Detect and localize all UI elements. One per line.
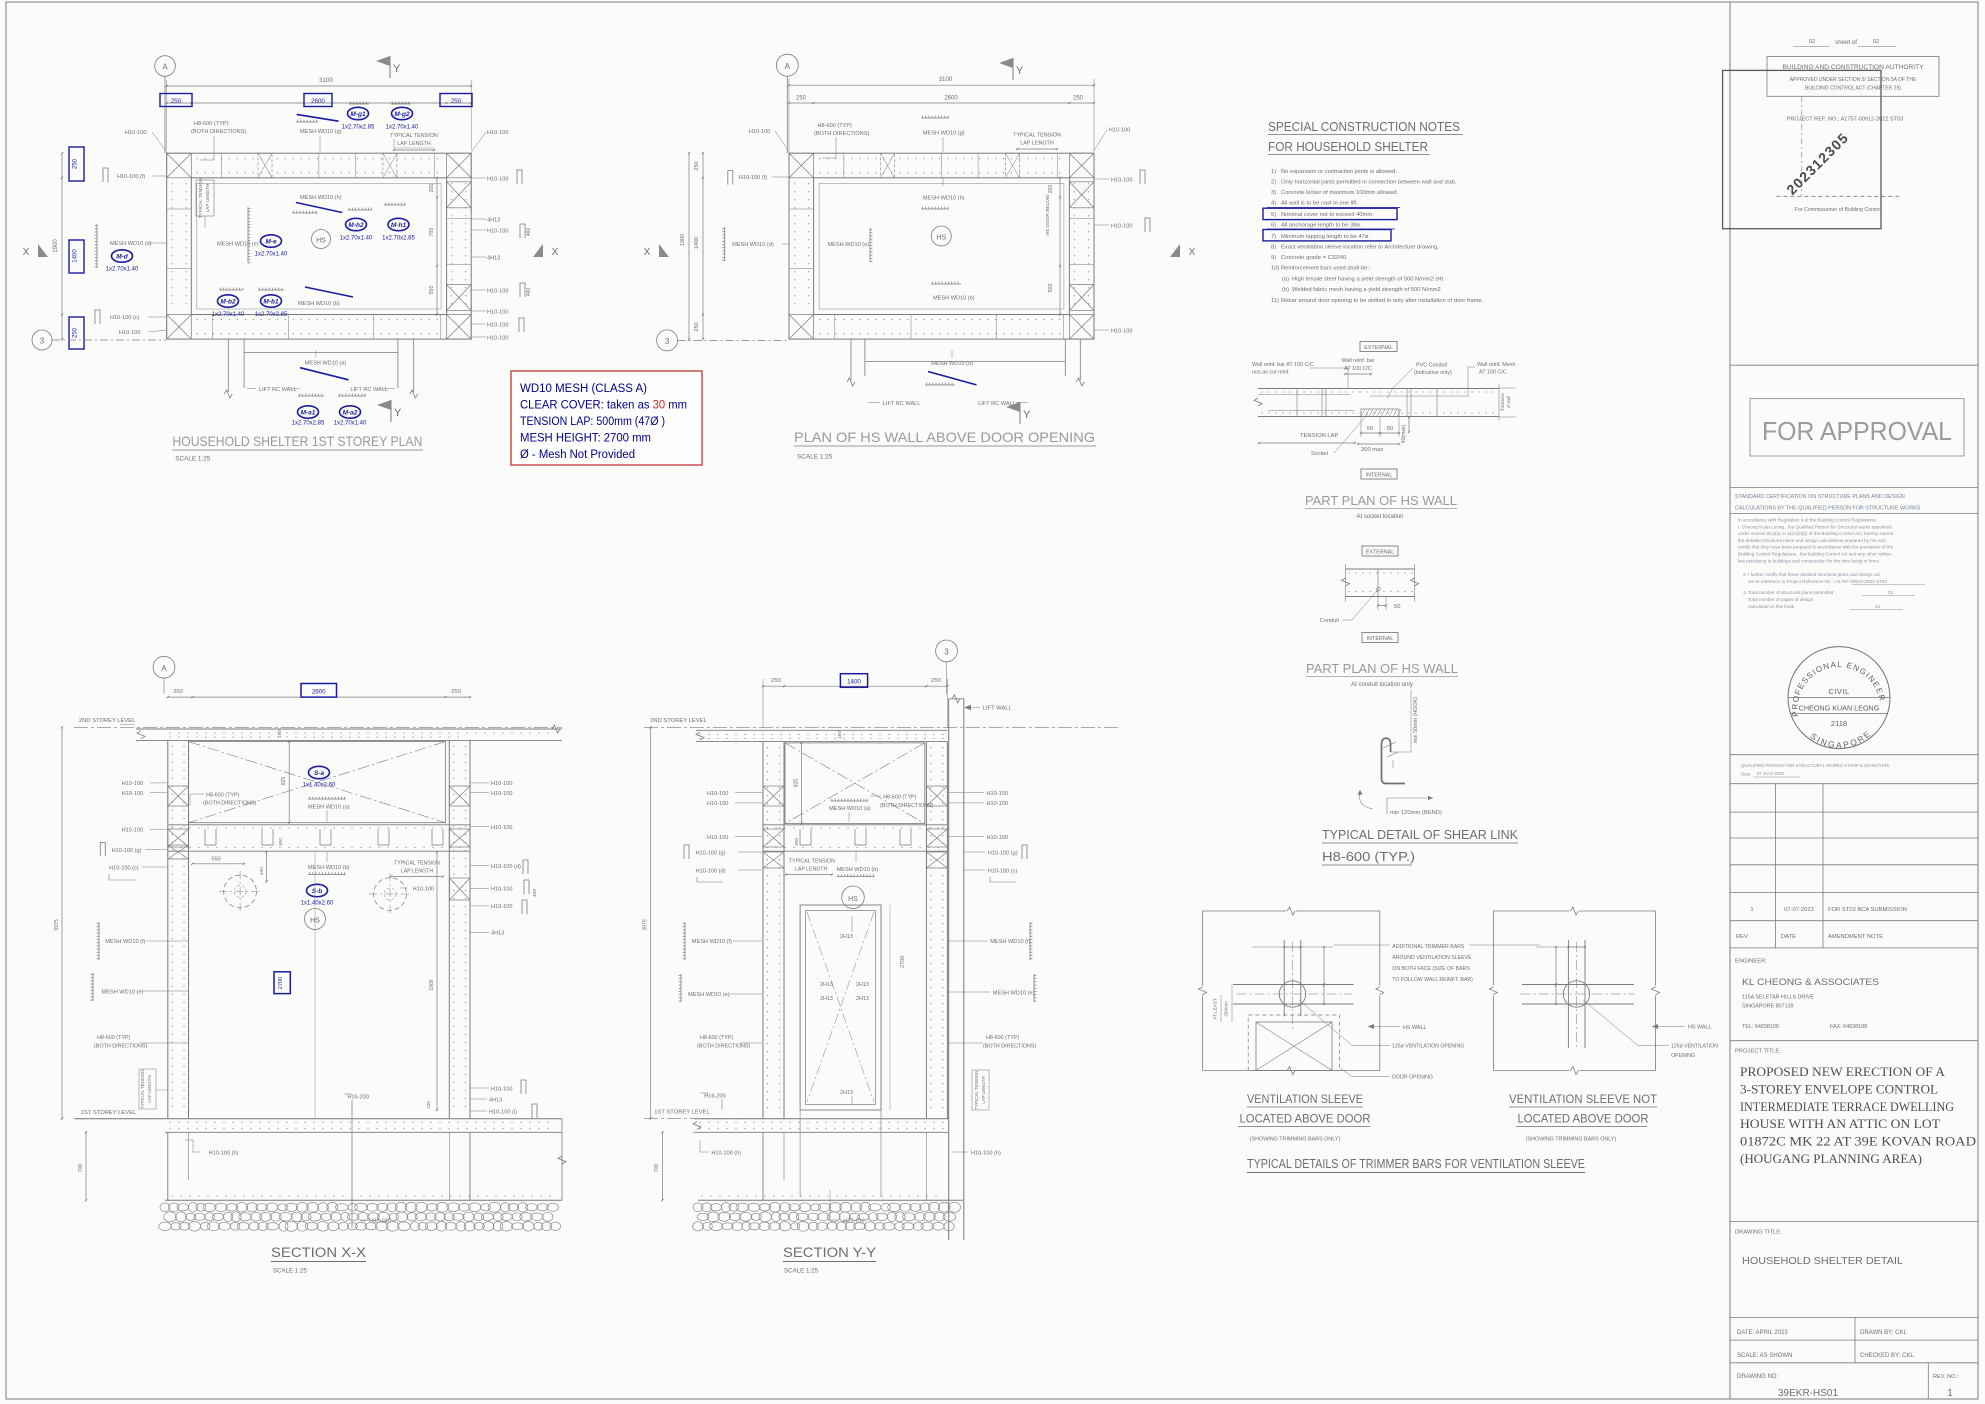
label H10-100 (f) plan2 bbox=[728, 171, 733, 185]
svg-text:250: 250 bbox=[1073, 96, 1084, 102]
trimmer dim right bbox=[1568, 946, 1585, 948]
2nd storey slab (Y-Y) bbox=[696, 729, 947, 731]
wall rebar dots right bbox=[465, 183, 466, 184]
svg-text:TO FOLLOW WALL REINFT. BAR): TO FOLLOW WALL REINFT. BAR) bbox=[1392, 977, 1473, 983]
svg-text:2700: 2700 bbox=[900, 956, 906, 968]
svg-text:MESH WD10 (e): MESH WD10 (e) bbox=[688, 992, 730, 998]
corner brace bottom-left bbox=[789, 315, 814, 340]
svg-text:AT 100 C/C: AT 100 C/C bbox=[1479, 370, 1507, 376]
left wall braces (Y-Y) bbox=[763, 786, 784, 806]
floor slab (Y-Y) bbox=[694, 1118, 949, 1120]
svg-text:460: 460 bbox=[526, 288, 532, 297]
svg-text:DATE: APRIL 2023: DATE: APRIL 2023 bbox=[1737, 1330, 1788, 1336]
svg-text:MESH WD10 (b): MESH WD10 (b) bbox=[308, 865, 350, 871]
divider below PE stamp bbox=[1730, 754, 1978, 756]
svg-text:250: 250 bbox=[694, 322, 700, 331]
svg-text:SCALE: AS SHOWN: SCALE: AS SHOWN bbox=[1737, 1353, 1792, 1359]
svg-text:3): 3) bbox=[1271, 190, 1276, 196]
interior dim 200/500 (plan2) bbox=[1059, 178, 1061, 315]
svg-text:MESH WD10 (f): MESH WD10 (f) bbox=[692, 939, 732, 945]
dim 550 (X-X) bbox=[192, 863, 244, 865]
svg-text:At conduit location only: At conduit location only bbox=[1351, 682, 1413, 688]
svg-text:07 JULY 2023: 07 JULY 2023 bbox=[1757, 771, 1785, 776]
svg-text:MESH WD10 (h): MESH WD10 (h) bbox=[923, 195, 965, 201]
svg-text:2600: 2600 bbox=[944, 96, 958, 102]
svg-text:H10-100: H10-100 bbox=[487, 229, 508, 235]
wall band dots (conduit) bbox=[1348, 572, 1349, 573]
lintel stirrups (Y-Y) bbox=[800, 829, 811, 845]
svg-text:150: 150 bbox=[837, 731, 843, 739]
svg-text:H10-100 (g): H10-100 (g) bbox=[112, 848, 142, 854]
svg-text:H10-100: H10-100 bbox=[413, 886, 434, 892]
svg-text:2118: 2118 bbox=[1831, 719, 1847, 728]
svg-text:HOUSEHOLD SHELTER DETAIL: HOUSEHOLD SHELTER DETAIL bbox=[1742, 1255, 1903, 1267]
lift wall below plan 2 inner bbox=[864, 339, 866, 376]
svg-text:HOUSE WITH AN ATTIC ON LOT: HOUSE WITH AN ATTIC ON LOT bbox=[1740, 1116, 1940, 1131]
vent sleeve dashed circle right (X-X) bbox=[374, 878, 407, 911]
end ticks (socket plan) bbox=[1254, 398, 1262, 406]
lintel dots bbox=[171, 827, 172, 828]
svg-text:250: 250 bbox=[173, 689, 183, 695]
blue box 2600 bbox=[304, 94, 332, 107]
svg-text:QUALIFIED PERSON FOR STRUCTURA: QUALIFIED PERSON FOR STRUCTURAL WORKS ST… bbox=[1741, 763, 1889, 768]
svg-text:H16-200: H16-200 bbox=[704, 1094, 725, 1100]
panel border with break marks bbox=[1493, 910, 1569, 912]
revision table bbox=[1730, 783, 1978, 785]
extension lines dim (Y-Y) bbox=[762, 679, 764, 728]
mesh comb b (Y-Y) bbox=[837, 876, 875, 878]
svg-text:FAX: 64838108: FAX: 64838108 bbox=[1830, 1024, 1867, 1030]
svg-text:AROUND VENTILATION SLEEVE: AROUND VENTILATION SLEEVE bbox=[1392, 955, 1472, 961]
svg-text:1: 1 bbox=[1750, 907, 1753, 913]
svg-text:Wall reinf. Mesh: Wall reinf. Mesh bbox=[1477, 362, 1515, 368]
svg-text:X: X bbox=[552, 247, 559, 258]
svg-text:MESH WD10 (a): MESH WD10 (a) bbox=[305, 361, 347, 367]
svg-text:law pertaining to buildings: law pertaining to buildings and construc… bbox=[1738, 558, 1880, 563]
dimension 3100 (plan 2) bbox=[789, 84, 1094, 86]
svg-text:MESH WD10 (o): MESH WD10 (o) bbox=[931, 361, 973, 367]
door X braces bbox=[1257, 1023, 1332, 1071]
svg-text:H10-100: H10-100 bbox=[707, 801, 728, 807]
svg-text:200: 200 bbox=[429, 184, 435, 193]
svg-text:TYPICAL TENSION: TYPICAL TENSION bbox=[140, 1070, 145, 1109]
svg-text:250: 250 bbox=[694, 161, 700, 170]
svg-text:VENTILATION SLEEVE: VENTILATION SLEEVE bbox=[1247, 1092, 1363, 1106]
svg-text:H8-600 (TYP): H8-600 (TYP) bbox=[206, 793, 239, 799]
svg-text:CHECKED BY: CKL: CHECKED BY: CKL bbox=[1860, 1353, 1914, 1359]
svg-text:M-g1: M-g1 bbox=[350, 111, 366, 118]
svg-text:H10-100: H10-100 bbox=[987, 791, 1008, 797]
mesh tag M-g2 bbox=[392, 107, 413, 119]
svg-text:nos.as cut reinf.: nos.as cut reinf. bbox=[1252, 370, 1290, 376]
blue box 250 bottom-left vertical bbox=[69, 317, 84, 349]
svg-text:200: 200 bbox=[1048, 185, 1054, 194]
svg-text:At socket location: At socket location bbox=[1356, 514, 1403, 520]
mesh comb b (X-X) bbox=[308, 874, 346, 876]
svg-text:the detailed structural plans: the detailed structural plans and design… bbox=[1738, 538, 1886, 543]
svg-text:3: 3 bbox=[944, 648, 949, 657]
brace right wall upper bbox=[1069, 182, 1094, 208]
svg-text:M-e: M-e bbox=[265, 238, 277, 245]
svg-text:1x2.70x1.40: 1x2.70x1.40 bbox=[386, 125, 419, 131]
svg-text:H10-100: H10-100 bbox=[491, 1086, 512, 1092]
svg-text:Only horizontal joints permitt: Only horizontal joints permitted in conn… bbox=[1281, 180, 1457, 186]
mesh tag M-b2 bbox=[218, 295, 239, 307]
svg-text:X: X bbox=[1189, 247, 1196, 258]
svg-text:02: 02 bbox=[1809, 39, 1815, 45]
lift wall below plan 2 outer bbox=[850, 339, 852, 380]
INTERNAL tag (socket plan) bbox=[1361, 469, 1397, 479]
wall mesh line bbox=[197, 183, 441, 309]
wall band separators bbox=[1296, 389, 1298, 417]
svg-text:250: 250 bbox=[796, 96, 807, 102]
sleeve circle right bbox=[1563, 981, 1589, 1007]
svg-text:MESH WD10 (f): MESH WD10 (f) bbox=[990, 939, 1030, 945]
wall band dots bbox=[1261, 391, 1262, 392]
svg-text:Minimum lapping length to be 4: Minimum lapping length to be 47ø. bbox=[1281, 234, 1370, 240]
svg-text:Y: Y bbox=[393, 63, 401, 75]
svg-text:(BOTH DIRECTIONS): (BOTH DIRECTIONS) bbox=[983, 1044, 1037, 1050]
svg-text:A: A bbox=[161, 664, 167, 673]
svg-text:250: 250 bbox=[931, 678, 941, 684]
lintel stirrups bbox=[205, 829, 216, 845]
svg-text:2H13: 2H13 bbox=[856, 982, 869, 988]
svg-text:AT 100 C/C: AT 100 C/C bbox=[1344, 366, 1372, 372]
svg-text:250: 250 bbox=[451, 689, 461, 695]
svg-text:MESH WD10 (e): MESH WD10 (e) bbox=[993, 991, 1035, 997]
svg-text:250: 250 bbox=[771, 678, 781, 684]
sleeve centrelines right bbox=[1521, 993, 1635, 995]
svg-text:1x2.70x2.85: 1x2.70x2.85 bbox=[342, 125, 375, 131]
dim 825 (X-X) bbox=[288, 742, 290, 823]
svg-text:MESH WD10 (b): MESH WD10 (b) bbox=[837, 867, 879, 873]
trimmer dim top bbox=[1284, 946, 1301, 948]
2nd storey level line (Y-Y) bbox=[644, 726, 1120, 728]
svg-text:X: X bbox=[644, 247, 651, 258]
wall rebar dots top bbox=[819, 158, 820, 159]
conduit circle bbox=[1377, 587, 1381, 591]
svg-text:LAP LENGTH: LAP LENGTH bbox=[981, 1076, 986, 1103]
svg-text:1400: 1400 bbox=[73, 249, 79, 263]
door frame (Y-Y) bbox=[800, 905, 881, 1110]
svg-text:MESH WD10 (b): MESH WD10 (b) bbox=[298, 301, 340, 307]
corner brace top-left bbox=[789, 153, 814, 178]
svg-text:02: 02 bbox=[1873, 39, 1879, 45]
svg-text:10): 10) bbox=[1271, 266, 1279, 272]
svg-text:1x1.40x2.60: 1x1.40x2.60 bbox=[301, 901, 334, 907]
svg-text:H10-100: H10-100 bbox=[119, 330, 140, 336]
svg-text:Wall reinf. bar AT 100 C/C: Wall reinf. bar AT 100 C/C bbox=[1252, 362, 1314, 368]
svg-text:250: 250 bbox=[73, 158, 79, 169]
svg-text:50: 50 bbox=[1394, 604, 1400, 610]
svg-text:PROJECT TITLE:: PROJECT TITLE: bbox=[1735, 1049, 1781, 1055]
svg-text:LAP LENGTH: LAP LENGTH bbox=[147, 1075, 152, 1102]
svg-text:TYPICAL DETAIL OF SHEAR LINK: TYPICAL DETAIL OF SHEAR LINK bbox=[1322, 828, 1519, 842]
svg-text:(BOTH DIRECTIONS): (BOTH DIRECTIONS) bbox=[191, 129, 246, 135]
svg-text:Socket: Socket bbox=[1311, 451, 1329, 457]
svg-text:2H13: 2H13 bbox=[820, 996, 833, 1002]
svg-text:H10-100 (f): H10-100 (f) bbox=[117, 174, 145, 180]
svg-text:thickness: thickness bbox=[1500, 393, 1505, 410]
HS wall inner face bbox=[814, 178, 1070, 315]
mesh comb b2 bbox=[219, 289, 243, 291]
mesh tag M-g1 bbox=[348, 107, 369, 119]
svg-text:under section 8(1)(a) or 11(1): under section 8(1)(a) or 11(1)(d)(i) of … bbox=[1738, 531, 1894, 536]
centreline (X-X) bbox=[314, 852, 316, 1118]
svg-text:Rebar around door opening to b: Rebar around door opening to be slotted … bbox=[1281, 298, 1484, 304]
svg-text:250: 250 bbox=[73, 327, 79, 338]
svg-text:Wall reinf. bar: Wall reinf. bar bbox=[1341, 358, 1374, 364]
slab rebar dots (Y-Y) bbox=[699, 734, 700, 735]
svg-text:H10-100 (g): H10-100 (g) bbox=[696, 851, 726, 857]
svg-text:REV. NO.:: REV. NO.: bbox=[1933, 1374, 1959, 1380]
svg-text:2. I further certify that the: 2. I further certify that these detailed… bbox=[1743, 572, 1881, 577]
mesh tag M-e bbox=[261, 235, 282, 247]
svg-text:H10-100 (h): H10-100 (h) bbox=[711, 1151, 741, 1157]
sleeve circle left bbox=[1279, 981, 1305, 1007]
svg-text:DATE: DATE bbox=[1781, 934, 1796, 940]
svg-text:SCALE 1:25: SCALE 1:25 bbox=[784, 1268, 819, 1275]
lintel dots (Y-Y) bbox=[766, 827, 767, 828]
mesh comb a1 bbox=[298, 395, 324, 397]
corner brace top-left bbox=[167, 153, 192, 178]
svg-text:1x2.70x1.40: 1x2.70x1.40 bbox=[212, 312, 245, 318]
svg-text:LIFT RC WALL: LIFT RC WALL bbox=[259, 387, 297, 393]
svg-text:TYPICAL TENSION: TYPICAL TENSION bbox=[789, 859, 835, 865]
right wall (Y-Y) bbox=[925, 742, 927, 1119]
svg-text:min 120mm (BEND): min 120mm (BEND) bbox=[1390, 810, 1442, 816]
foundation (X-X) bbox=[167, 1132, 169, 1200]
svg-text:825: 825 bbox=[281, 777, 287, 786]
grid bubble A (plan 1) bbox=[155, 56, 176, 77]
svg-text:07-07-2023: 07-07-2023 bbox=[1784, 907, 1814, 913]
left wall braces bbox=[168, 786, 189, 806]
grid bubble 3 (section Y-Y) bbox=[936, 640, 958, 662]
svg-text:1900: 1900 bbox=[429, 979, 435, 990]
svg-text:500: 500 bbox=[429, 286, 435, 295]
svg-text:TYPICAL TENSION: TYPICAL TENSION bbox=[394, 861, 440, 867]
svg-text:3-STOREY ENVELOPE CONTROL: 3-STOREY ENVELOPE CONTROL bbox=[1740, 1081, 1938, 1096]
svg-text:H8-600 (TYP): H8-600 (TYP) bbox=[818, 123, 853, 129]
svg-text:5): 5) bbox=[1271, 212, 1276, 218]
brace right wall lower bbox=[1069, 285, 1094, 311]
svg-text:700: 700 bbox=[78, 1164, 84, 1173]
svg-text:SCALE 1:25: SCALE 1:25 bbox=[797, 454, 833, 461]
svg-text:LIFT RC WALL: LIFT RC WALL bbox=[883, 401, 921, 407]
trimmer dim vertical bbox=[1323, 947, 1325, 985]
svg-text:H10-100: H10-100 bbox=[487, 130, 508, 136]
svg-text:(SHOWING TRIMMING BARS ONLY): (SHOWING TRIMMING BARS ONLY) bbox=[1250, 1137, 1341, 1143]
svg-text:CIVIL: CIVIL bbox=[1828, 687, 1849, 696]
zig marks bbox=[1342, 578, 1350, 586]
svg-text:HS: HS bbox=[848, 896, 858, 903]
svg-text:For Commissioner of Building C: For Commissioner of Building Control bbox=[1795, 207, 1881, 213]
svg-text:M-b2: M-b2 bbox=[220, 298, 236, 305]
title block divider bbox=[1729, 2, 1731, 1399]
svg-text:8): 8) bbox=[1271, 245, 1276, 251]
section marker X left (plan 1) bbox=[38, 244, 48, 257]
mesh symbol a blue bbox=[300, 368, 349, 380]
divider above drawing title bbox=[1730, 1221, 1978, 1223]
svg-text:ON BOTH FACE (SIZE OF BARS: ON BOTH FACE (SIZE OF BARS bbox=[1392, 966, 1470, 972]
wall band (socket plan) bbox=[1258, 388, 1499, 390]
svg-text:H32-100: H32-100 bbox=[843, 1219, 864, 1225]
svg-text:sheet of: sheet of bbox=[1835, 39, 1857, 46]
BCA stamp square bbox=[1723, 70, 1881, 228]
mesh comb g2 bbox=[391, 103, 411, 105]
mesh comb a (X-X) bbox=[308, 798, 346, 800]
svg-text:1400: 1400 bbox=[847, 679, 861, 686]
svg-text:H8-600 (TYP): H8-600 (TYP) bbox=[97, 1035, 130, 1041]
svg-text:H10-100: H10-100 bbox=[707, 835, 728, 841]
svg-text:STANDARD CERTIFICATION ON STRU: STANDARD CERTIFICATION ON STRUCTURE PLAN… bbox=[1735, 494, 1905, 500]
svg-text:KL CHEONG & ASSOCIATES: KL CHEONG & ASSOCIATES bbox=[1742, 977, 1879, 987]
trimmer leader line bbox=[1334, 944, 1390, 946]
svg-text:(SHOWING TRIMMING BARS ONLY): (SHOWING TRIMMING BARS ONLY) bbox=[1526, 1137, 1617, 1143]
label H10-100 (f) left bbox=[103, 168, 108, 182]
mesh tag M-h1 bbox=[388, 218, 409, 230]
slab rebar dots (X-X) bbox=[169, 732, 170, 733]
wall rebar dots right bbox=[1088, 183, 1089, 184]
svg-text:1ST STOREY LEVEL: 1ST STOREY LEVEL bbox=[81, 1110, 137, 1116]
blue box 250 top-left vertical bbox=[69, 147, 84, 181]
svg-text:PVC Conduit: PVC Conduit bbox=[1416, 363, 1448, 369]
mesh tag M-h2 bbox=[346, 218, 367, 230]
svg-text:Y: Y bbox=[1023, 409, 1031, 421]
svg-text:WD10 MESH (CLASS A): WD10 MESH (CLASS A) bbox=[520, 381, 647, 395]
lift wall (Y-Y) bbox=[948, 699, 950, 1240]
PE stamp chords bbox=[1788, 697, 1890, 699]
svg-text:TYPICAL TENSION: TYPICAL TENSION bbox=[390, 133, 438, 139]
svg-text:SECTION Y-Y: SECTION Y-Y bbox=[783, 1245, 876, 1260]
door X dashed (Y-Y) bbox=[807, 912, 874, 1102]
INTERNAL tag (conduit plan) bbox=[1362, 633, 1398, 643]
svg-text:700: 700 bbox=[429, 228, 435, 237]
svg-text:1x2.70x2.85: 1x2.70x2.85 bbox=[255, 312, 288, 318]
svg-text:9): 9) bbox=[1271, 255, 1276, 261]
mesh comb a (Y-Y) bbox=[830, 800, 868, 802]
svg-text:CHEONG KUAN LEONG: CHEONG KUAN LEONG bbox=[1799, 704, 1880, 713]
blue box 1400 vertical bbox=[69, 240, 84, 273]
svg-text:H10-100 (c): H10-100 (c) bbox=[988, 869, 1018, 875]
svg-text:MESH WD10 (g): MESH WD10 (g) bbox=[300, 129, 342, 135]
lap patch top wall 2 bbox=[1006, 153, 1020, 178]
HS symbol (plan 2) bbox=[931, 226, 951, 246]
strike line note 4 bbox=[1267, 207, 1400, 209]
svg-text:PROJECT REF. NO.: A1757-00912-: PROJECT REF. NO.: A1757-00912-2022 ST03 bbox=[1787, 117, 1904, 123]
svg-text:SCALE 1:25: SCALE 1:25 bbox=[175, 456, 211, 463]
svg-text:1x2.70x2.85: 1x2.70x2.85 bbox=[292, 421, 325, 427]
svg-text:Conduit: Conduit bbox=[1320, 618, 1340, 624]
2nd storey slab (X-X) bbox=[136, 728, 562, 730]
svg-text:6): 6) bbox=[1271, 223, 1276, 229]
svg-text:2600: 2600 bbox=[312, 688, 326, 695]
svg-text:H10-100: H10-100 bbox=[122, 781, 143, 787]
wall band inner lines bbox=[1258, 394, 1350, 396]
svg-text:X: X bbox=[23, 247, 30, 258]
svg-text:825: 825 bbox=[794, 779, 800, 788]
blue highlight box note 7 bbox=[1263, 230, 1391, 241]
svg-text:LAP LENGTH: LAP LENGTH bbox=[205, 184, 210, 213]
svg-text:300: 300 bbox=[794, 838, 800, 846]
divider above date row bbox=[1730, 1316, 1978, 1318]
svg-text:M-d: M-d bbox=[116, 253, 129, 260]
svg-text:H10-100: H10-100 bbox=[707, 791, 728, 797]
divider above FOR APPROVAL bbox=[1730, 364, 1978, 366]
svg-text:H10-100: H10-100 bbox=[125, 130, 146, 136]
svg-text:H10-100: H10-100 bbox=[487, 310, 508, 316]
svg-text:250mm: 250mm bbox=[1224, 1001, 1229, 1016]
right wall joints bbox=[447, 217, 472, 219]
blue box 1400 (Y-Y) bbox=[840, 674, 867, 688]
section flag Y top (plan 2) bbox=[1012, 58, 1014, 80]
svg-text:50: 50 bbox=[1367, 426, 1373, 432]
svg-text:(HOUGANG PLANNING AREA): (HOUGANG PLANNING AREA) bbox=[1740, 1151, 1922, 1166]
svg-text:LOCATED ABOVE DOOR: LOCATED ABOVE DOOR bbox=[1518, 1112, 1649, 1126]
svg-text:Concrete kicker of maximum 100: Concrete kicker of maximum 100mm allowed… bbox=[1281, 190, 1399, 196]
svg-text:(Indicative only): (Indicative only) bbox=[1414, 370, 1452, 376]
wall above X-brace panel (Y-Y) bbox=[785, 743, 925, 824]
svg-text:OPENING: OPENING bbox=[1671, 1053, 1695, 1059]
divider below FOR APPROVAL bbox=[1730, 486, 1978, 488]
svg-text:40(max): 40(max) bbox=[1401, 424, 1407, 443]
svg-text:Reinforcement bars used shall: Reinforcement bars used shall be:- bbox=[1281, 266, 1371, 272]
EXTERNAL tag (conduit plan) bbox=[1362, 546, 1398, 556]
svg-text:HS DOOR BELOW: HS DOOR BELOW bbox=[1045, 194, 1051, 236]
svg-text:DRAWING TITLE:: DRAWING TITLE: bbox=[1735, 1230, 1782, 1236]
lap patch top wall 2 bbox=[383, 153, 397, 178]
svg-text:No expansion or contraction jo: No expansion or contraction joints is al… bbox=[1281, 169, 1397, 175]
svg-text:4H13: 4H13 bbox=[489, 1098, 502, 1104]
svg-text:2600: 2600 bbox=[311, 98, 325, 105]
svg-text:H10-100: H10-100 bbox=[1109, 128, 1130, 134]
svg-text:H10-100: H10-100 bbox=[749, 129, 770, 135]
svg-text:All anchorage length to be 38ø: All anchorage length to be 38ø. bbox=[1281, 223, 1362, 229]
HS symbol (X-X) bbox=[305, 909, 326, 930]
svg-text:400: 400 bbox=[259, 867, 265, 875]
svg-text:INTERNAL: INTERNAL bbox=[1367, 636, 1394, 642]
svg-text:H16-200: H16-200 bbox=[347, 1095, 368, 1101]
svg-text:39EKR-HS01: 39EKR-HS01 bbox=[1778, 1388, 1838, 1399]
svg-text:H8-600 (TYP): H8-600 (TYP) bbox=[883, 795, 916, 801]
top wall joints bbox=[843, 153, 845, 178]
HS symbol (plan 1) bbox=[312, 230, 331, 249]
svg-text:min 50mm (HOOK): min 50mm (HOOK) bbox=[1413, 697, 1419, 743]
svg-text:4H13: 4H13 bbox=[487, 218, 500, 224]
EXTERNAL tag (socket plan) bbox=[1360, 342, 1397, 352]
svg-text:4H13: 4H13 bbox=[491, 931, 504, 937]
svg-text:S-a: S-a bbox=[314, 770, 325, 777]
svg-text:100: 100 bbox=[426, 1101, 431, 1109]
section marker X left (plan 2) bbox=[659, 244, 669, 257]
svg-text:BUILDING CONTROL ACT (CHAPTER: BUILDING CONTROL ACT (CHAPTER 29) bbox=[1805, 86, 1901, 92]
hook extension line bbox=[1391, 751, 1411, 753]
svg-text:3. Total number of structural: 3. Total number of structural plans subm… bbox=[1743, 590, 1836, 595]
corner brace top-right bbox=[1069, 153, 1094, 178]
mesh symbol h blue bbox=[296, 203, 342, 213]
svg-text:TEL: 64838108: TEL: 64838108 bbox=[1742, 1024, 1779, 1030]
mesh tag M-a1 bbox=[298, 406, 319, 418]
svg-text:3: 3 bbox=[665, 337, 670, 346]
svg-text:H10-100: H10-100 bbox=[491, 887, 512, 893]
svg-text:CALCULATIONS BY THE QUALIFIED: CALCULATIONS BY THE QUALIFIED PERSON FOR… bbox=[1735, 506, 1921, 512]
svg-text:550: 550 bbox=[211, 857, 220, 863]
svg-text:HS WALL: HS WALL bbox=[1403, 1025, 1426, 1031]
lift wall below plan 1 inner bbox=[243, 339, 245, 388]
svg-text:3100: 3100 bbox=[319, 77, 333, 84]
svg-text:500: 500 bbox=[1048, 284, 1054, 293]
svg-text:H10-100: H10-100 bbox=[491, 791, 512, 797]
